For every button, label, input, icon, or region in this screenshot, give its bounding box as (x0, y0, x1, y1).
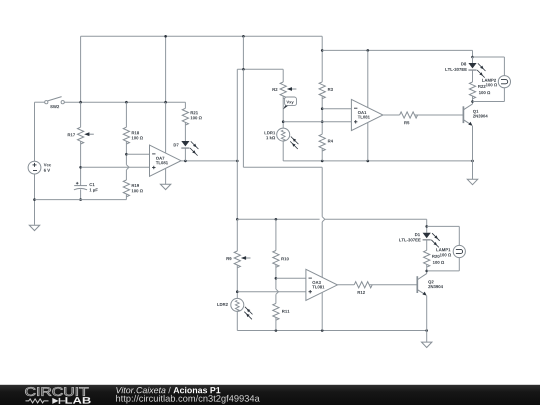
node lamp2 bottom junction (471, 100, 474, 103)
resistor R12 (354, 282, 372, 288)
wire OA7 V- pin (165, 169, 167, 184)
voltage source Vcc 6V (28, 161, 41, 174)
node R3 top V+ tee (321, 49, 324, 52)
op-amp OA3 TL081 (306, 269, 338, 300)
node OA7 output to x=237 riser (236, 160, 239, 163)
potentiometer R17 (78, 127, 84, 144)
wire OA1 output (383, 114, 400, 116)
node top rail / OA7 V+ riser (164, 35, 167, 38)
wire Q2 emitter down (426, 296, 428, 343)
op-amp OA1 TL081 (351, 99, 383, 130)
wire R21 top corner (184, 102, 186, 108)
wire LAMP2 branch bottom (503, 88, 505, 102)
wire LAMP1 branch top (427, 225, 460, 227)
photoresistor LDR2 (231, 298, 244, 311)
wire ground bus y=161 (283, 160, 472, 162)
node OA1 plus tap at LDR1 (282, 120, 285, 123)
node OA1 plus wire crossing (321, 120, 324, 123)
footer credit line (116, 387, 165, 393)
wire OA3 output (337, 284, 354, 286)
node lamp1 bottom junction (425, 270, 428, 273)
wire R9 to LDR2 with OA3+ tap (236, 265, 238, 298)
node OA7 plus tap (79, 166, 82, 169)
resistor R18 100 (123, 127, 129, 144)
wire D1 cathode to R20 (426, 240, 428, 250)
wire switch row bus (81, 101, 186, 103)
node OA1 minus tap (321, 107, 324, 110)
node R4 bottom (321, 160, 324, 163)
potentiometer R2 (280, 82, 286, 99)
wire x=243 riser upper (242, 36, 244, 69)
wire left riser from top rail to switch row (80, 36, 82, 102)
node OA3 plus tap (236, 290, 239, 293)
wire R11 bottom (275, 317, 277, 330)
node OA3 minus tap (275, 277, 278, 280)
wire x=237 riser (236, 69, 238, 219)
wire x=243 riser lower (242, 69, 244, 167)
wire R20 bottom to Q2 collector (426, 264, 428, 273)
node C1 bottom rail tee (79, 198, 82, 201)
flag Vxy (283, 105, 289, 109)
wire bottom rail left section (35, 199, 127, 201)
node Q2 emitter / ground bus (425, 329, 428, 332)
wire R18 to R19 with OA7- tap and hop (125, 141, 127, 165)
wire R12 to Q2 base (369, 284, 417, 286)
node OA3 V- bottom (321, 329, 324, 332)
LED D7 (181, 141, 189, 146)
node x=243 riser on R2 feed (242, 68, 245, 71)
wire top bus corner down to D1 (426, 219, 428, 233)
wire R2 top corner (282, 69, 284, 82)
node top rail / x=243 riser (242, 35, 245, 38)
wire D8 cathode to R22 (472, 71, 474, 82)
resistor R11 (273, 303, 279, 320)
node OA7 V+ riser / switch row (164, 101, 167, 104)
wire Vcc to switch (34, 102, 36, 161)
resistor R10 (273, 251, 279, 268)
op-amp OA7 TL081 (150, 145, 182, 176)
wire OA1 V- pin (367, 122, 369, 160)
wire Q1 emitter down (472, 126, 474, 180)
wire R9 column upper (236, 219, 238, 251)
wire OA3 plus input (237, 291, 306, 293)
wire OA3 V- pin (321, 292, 323, 330)
node switch/R17 riser (79, 101, 82, 104)
node R18 top (125, 101, 128, 104)
resistor R5 (400, 112, 418, 118)
wire cross feed to OA3 supply (243, 166, 322, 168)
transistor Q1 2N3904 (462, 106, 464, 123)
transistor Q2 2N3904 (416, 276, 418, 293)
wire OA3 minus input (276, 277, 306, 279)
wire top Vcc rail (81, 35, 323, 37)
wire LAMP1 branch bottom (458, 258, 460, 271)
wire OA7 V+ pin (165, 102, 167, 153)
wire OA1 plus input (283, 121, 351, 123)
wire OA7 plus input (81, 166, 150, 168)
wire R19 bottom corner (125, 194, 127, 200)
ground OA7 (160, 184, 170, 189)
node bottom-section supply tee at x=237 (236, 218, 239, 221)
wire OA1 minus input (322, 108, 351, 110)
wire R22 bottom to Q1 collector (472, 96, 474, 104)
LED D1 LTL-307EE (423, 233, 431, 238)
wire bottom ground bus (237, 330, 426, 332)
footer url line (116, 395, 260, 404)
wire OA7 minus input (126, 153, 149, 155)
wire LDR2 bottom corner (236, 311, 238, 330)
node D1 anode tee (425, 225, 428, 228)
logo LAB word (65, 397, 90, 403)
capacitor C1 1uF (74, 185, 87, 187)
wire R18 column upper (125, 102, 127, 127)
wire D7 cathode (184, 149, 186, 161)
resistor R3 (319, 82, 325, 99)
node D7 cathode junction (184, 160, 187, 163)
wire R17 to C1 with OA7+ tap (80, 141, 82, 185)
wire OA7 V+ riser (165, 36, 167, 102)
ground Q1 (467, 179, 477, 184)
photoresistor LDR1 1k (277, 128, 290, 141)
wire OA7 output (181, 160, 237, 162)
ground under Vcc (29, 225, 39, 230)
wire R5 to Q1 base (415, 114, 464, 116)
wire R2 bottom to LDR1 (282, 96, 284, 128)
wire OA1 V+ pin (367, 50, 369, 107)
wire R3 to R4 (321, 96, 323, 134)
node D8 anode tee (471, 56, 474, 59)
wire R4 bottom (321, 148, 323, 161)
LED D8 LTL-307EE (472, 57, 474, 63)
wire LAMP2 branch top (473, 56, 505, 58)
lamp LAMP2 100 (498, 76, 510, 88)
wire R2 feed horizontal (237, 68, 283, 70)
wire C1 bottom (80, 189, 82, 199)
ground Q2 (422, 342, 432, 347)
lamp LAMP1 100 (453, 245, 465, 257)
node OA7 minus tap (125, 153, 128, 156)
resistor R22 100 (469, 82, 475, 99)
node Q1 emitter / ground bus (471, 160, 474, 163)
wire bottom-section top bus (237, 218, 319, 220)
wire LDR1 bottom corner (282, 141, 284, 161)
wire R17 column upper (80, 102, 82, 127)
wire R21 to D7 (184, 122, 186, 141)
potentiometer R9 (234, 251, 240, 268)
resistor R20 100 (424, 250, 430, 267)
logo resistor-diode squiggle (26, 399, 49, 403)
node R11 bottom (275, 329, 278, 332)
wire R10 to R11 with OA3- tap and hop (275, 265, 277, 290)
resistor R19 100 (123, 180, 129, 197)
logo CIRCUIT word (25, 387, 88, 396)
resistor R21 100 (182, 108, 188, 125)
wire R10 top (275, 219, 277, 250)
wire top rail corner down to R3 (321, 36, 323, 82)
resistor R4 (319, 134, 325, 151)
wire Vcc bottom to ground rail (34, 174, 36, 225)
switch SW2 (35, 101, 45, 103)
node Vcc bottom rail tee (33, 198, 36, 201)
node R10 top (275, 218, 278, 221)
node OA1 V- pin bottom (367, 160, 370, 163)
wire V+ feed to OA1 and D8 (322, 49, 472, 51)
node OA1 V+ pin on V+ feed (367, 49, 370, 52)
